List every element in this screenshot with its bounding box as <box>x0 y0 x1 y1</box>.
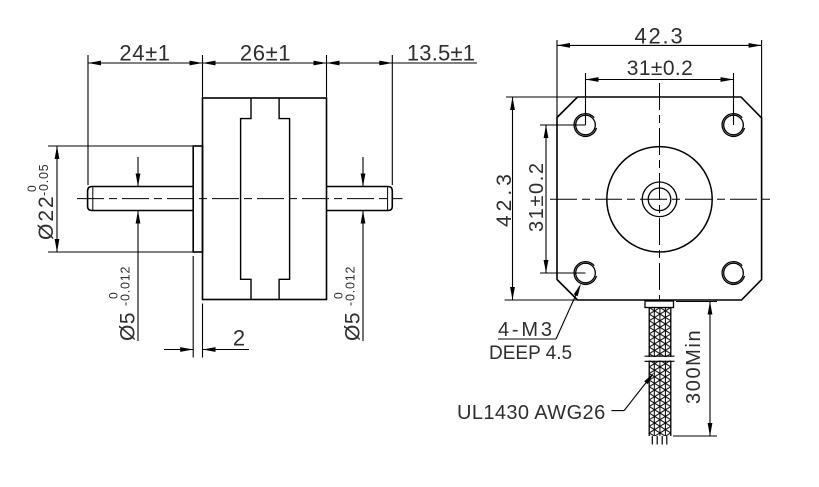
dimension line 31±0.2 top <box>586 79 734 81</box>
dimension 2 extension line body face <box>202 304 204 358</box>
dimension text 42.3 left (rotated) <box>493 170 516 227</box>
bearing boss circle <box>642 182 677 217</box>
300Min extension line bottom <box>673 435 717 437</box>
svg-text:Ø5: Ø5 <box>117 312 140 341</box>
dimension line 42.3 left (vertical) <box>512 97 514 300</box>
dimension line 26±1 <box>203 62 327 64</box>
dimension text 300Min (rotated) <box>683 329 705 404</box>
braid inner wires <box>653 308 655 437</box>
leader 4-M3 underline <box>498 338 556 340</box>
braid edges <box>648 308 650 437</box>
leader 4-M3 diagonal <box>556 288 579 339</box>
dimension text 31±0.2 left (rotated) <box>526 161 548 232</box>
svg-text:300Min: 300Min <box>683 329 705 404</box>
vertical centerline <box>659 83 661 301</box>
300Min extension line top <box>676 301 717 303</box>
mounting hole top-right <box>722 114 744 137</box>
svg-text:31±0.2: 31±0.2 <box>627 57 693 80</box>
dimension text Φ5 0/-0.012 right (rotated) <box>332 266 365 341</box>
Φ22 extension line bottom <box>48 251 193 253</box>
dimension line 2 <box>164 349 193 351</box>
svg-text:42.3: 42.3 <box>493 170 516 227</box>
dimension 2 extension line boss face <box>192 256 194 358</box>
left shaft end chamfer <box>92 187 94 210</box>
31±0.2 left extension lines <box>540 124 586 126</box>
stator inner contour left step <box>241 98 251 300</box>
svg-text:-0.05: -0.05 <box>37 164 51 197</box>
31±0.2 top extension lines <box>585 73 587 125</box>
dimension extension line rear shaft end <box>391 55 393 185</box>
svg-text:Ø5: Ø5 <box>342 312 365 341</box>
Φ5 right dimension leader upper <box>362 157 364 187</box>
motor body outline <box>203 98 327 300</box>
svg-text:2: 2 <box>233 326 245 351</box>
flange square with chamfered corners <box>557 97 762 300</box>
Φ5 right dimension leader lower <box>362 211 364 342</box>
svg-text:42.3: 42.3 <box>634 24 684 49</box>
dimension line 31±0.2 left (vertical) <box>545 125 547 273</box>
svg-text:-0.012: -0.012 <box>344 266 358 306</box>
braid break <box>642 357 676 361</box>
dimension extension line body front face <box>202 55 204 97</box>
dimension line 300Min <box>709 302 711 437</box>
svg-text:4-M3: 4-M3 <box>498 319 555 341</box>
dimension extension line body rear face <box>326 55 328 97</box>
pilot circle <box>607 147 712 252</box>
leader UL1430 dash <box>611 410 624 412</box>
dimension 24±1 extension line left <box>87 55 89 185</box>
svg-text:13.5±1: 13.5±1 <box>407 41 475 66</box>
mounting hole bottom-left <box>574 262 596 285</box>
dimension line 13.5±1 <box>327 62 478 64</box>
right shaft <box>327 187 393 211</box>
dimension text Φ22 0/-0.05 (rotated) <box>25 164 58 241</box>
bottom edge extension to left <box>505 299 578 301</box>
Φ22 dimension line <box>56 146 58 252</box>
right edge extension up <box>761 40 763 118</box>
Φ22 extension line top <box>48 145 193 147</box>
shaft circle <box>648 188 671 211</box>
svg-text:UL1430 AWG26: UL1430 AWG26 <box>457 402 606 424</box>
mounting hole bottom-right <box>722 262 744 285</box>
shaft centerline <box>77 198 403 200</box>
Φ5 left dimension leader lower <box>137 211 139 342</box>
horizontal centerline <box>550 198 772 200</box>
left edge extension up (42.3 top dim) <box>556 40 558 118</box>
stator inner contour right step <box>279 98 290 300</box>
cable cap <box>645 301 674 308</box>
top edge extension to left (42.3 vertical dim) <box>506 96 578 98</box>
svg-text:31±0.2: 31±0.2 <box>526 161 548 232</box>
lead wires <box>651 436 653 445</box>
right shaft end chamfer <box>387 187 389 210</box>
mounting hole top-left <box>574 114 596 137</box>
svg-text:-0.012: -0.012 <box>119 266 133 306</box>
leader UL1430 diagonal <box>624 375 652 411</box>
svg-text:26±1: 26±1 <box>240 41 291 66</box>
svg-text:24±1: 24±1 <box>119 41 170 66</box>
dimension line 42.3 top <box>557 44 762 46</box>
left shaft <box>88 187 194 211</box>
Φ5 left dimension leader upper <box>137 157 139 187</box>
svg-text:DEEP 4.5: DEEP 4.5 <box>489 343 572 364</box>
front pilot boss <box>193 146 202 252</box>
dimension line 24±1 <box>88 62 203 64</box>
svg-text:Ø22: Ø22 <box>35 194 58 240</box>
dimension text Φ5 0/-0.012 left (rotated) <box>107 266 140 341</box>
